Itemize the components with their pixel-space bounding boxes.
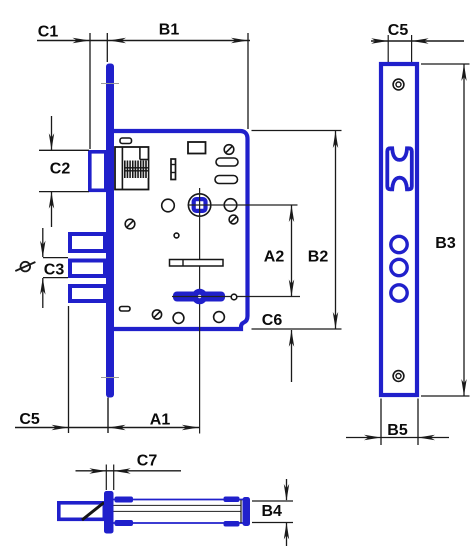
coil spring hatch xyxy=(124,161,148,179)
B4 extension top xyxy=(252,500,293,502)
bottom tab xyxy=(120,307,131,312)
extension line at body right x=248 xyxy=(247,33,249,129)
C2 arrow up xyxy=(51,192,53,227)
faceplate plate xyxy=(381,64,417,395)
circle mid-left xyxy=(162,199,175,212)
deadbolt bar 3 xyxy=(70,286,105,301)
slot 2 xyxy=(215,176,238,184)
end cap xyxy=(243,497,251,526)
B3 bottom extension xyxy=(421,395,470,397)
spindle square hub xyxy=(194,199,206,211)
screw centerline top xyxy=(101,83,119,85)
ring hole 3 xyxy=(391,285,407,301)
ring hole 2 xyxy=(391,259,407,275)
extension line deadbolt face xyxy=(68,306,70,433)
slot 1 xyxy=(216,158,238,166)
body interior line 2 xyxy=(114,510,242,512)
svg-text:B1: B1 xyxy=(159,22,180,39)
body interior line 1 xyxy=(114,504,242,506)
tab bottom-right xyxy=(224,521,240,527)
C5 arrows xyxy=(371,38,388,43)
B2 top extension line xyxy=(252,130,342,132)
lever arm xyxy=(173,292,225,302)
C2 arrow down xyxy=(51,116,53,150)
extension line at faceplate x=107 xyxy=(106,33,108,62)
lever centerline / A2 bottom extension xyxy=(172,296,300,298)
C5 dimension line top xyxy=(371,40,464,42)
deadbolt bar 1 xyxy=(70,234,105,251)
arrow B1 right xyxy=(231,38,248,43)
arrow at deadbolt face xyxy=(52,425,69,430)
body side top edge xyxy=(114,499,244,501)
bottom screw hole xyxy=(393,371,404,382)
latch cutout xyxy=(387,148,412,189)
tab top-left xyxy=(115,497,134,503)
lock body outline xyxy=(111,131,248,329)
arrow C1 right xyxy=(73,38,90,43)
C5 extension lines / latch channel edges xyxy=(387,35,389,148)
lever pivot ring right xyxy=(231,294,237,300)
screw S2 xyxy=(229,215,238,224)
svg-text:A2: A2 xyxy=(264,249,285,266)
body side bottom edge xyxy=(114,522,244,524)
C2 extension line top xyxy=(39,149,89,151)
spindle centerline vertical xyxy=(199,188,201,434)
svg-text:C1: C1 xyxy=(38,24,59,41)
spring housing step xyxy=(139,147,141,160)
arrow at faceplate (left-pointing) xyxy=(109,425,126,430)
spring housing tab xyxy=(120,138,132,144)
horizontal slot plate xyxy=(170,260,224,267)
C3 extension line top xyxy=(43,257,68,259)
svg-text:C2: C2 xyxy=(50,161,71,178)
screw S3 left xyxy=(125,219,135,229)
deadbolt bar 2 xyxy=(70,261,105,277)
bottom dimension row line xyxy=(15,427,200,429)
B4 arrow up from below xyxy=(286,523,288,546)
C3 arrow up xyxy=(42,278,44,308)
ring hole 1 xyxy=(391,236,407,252)
svg-text:C6: C6 xyxy=(262,312,283,329)
spring housing box xyxy=(115,147,149,190)
svg-text:C5: C5 xyxy=(19,411,40,428)
arrow A1 right xyxy=(182,425,199,430)
svg-text:A1: A1 xyxy=(150,412,171,429)
wire: top dimension line C1/B1 xyxy=(37,40,250,42)
end cap thin line xyxy=(240,500,242,523)
C2 extension line bottom xyxy=(39,191,89,193)
svg-text:B5: B5 xyxy=(387,422,408,439)
C3 arrow down xyxy=(42,228,44,257)
latch bevel diagonal xyxy=(82,503,104,521)
svg-text:B3: B3 xyxy=(435,235,456,252)
latch bolt front xyxy=(90,152,106,191)
circle bottom-1 xyxy=(173,313,184,324)
B3 top extension xyxy=(421,63,470,65)
latch bolt side view xyxy=(59,503,105,520)
spindle follower circle xyxy=(188,194,210,216)
B5 extension lines xyxy=(380,399,382,446)
B5 dimension line xyxy=(346,437,449,439)
spindle centerline horizontal / A2 top extension xyxy=(188,204,298,206)
C3 extension line bottom xyxy=(43,277,68,279)
top screw hole xyxy=(393,79,404,90)
C6 arrow up from below xyxy=(291,330,293,382)
screw S1 top-right xyxy=(224,145,234,155)
spring housing inner wall xyxy=(121,147,123,190)
B4 extension bottom xyxy=(252,522,293,524)
extension line at latch face x=90 xyxy=(89,33,91,149)
circle bottom-2 xyxy=(214,312,225,323)
phi symbol xyxy=(21,262,31,272)
C7 arrows xyxy=(89,468,106,473)
svg-text:B2: B2 xyxy=(308,249,329,266)
screw S4 xyxy=(152,310,161,319)
A2 dimension line xyxy=(291,205,293,297)
svg-text:C7: C7 xyxy=(137,453,158,470)
B2 dimension line xyxy=(335,131,337,329)
small dot xyxy=(174,233,179,238)
B3 dimension line xyxy=(463,64,465,396)
screw centerline bottom xyxy=(101,377,119,379)
B2 bottom extension line xyxy=(252,328,342,330)
B4 arrow down from above xyxy=(286,479,288,500)
svg-text:C5: C5 xyxy=(388,22,409,39)
tab top-right xyxy=(224,497,240,503)
C7 dimension line xyxy=(76,470,182,472)
faceplate front bar xyxy=(106,64,114,398)
circle mid-right xyxy=(224,199,237,212)
svg-text:C3: C3 xyxy=(44,262,65,279)
faceplate centerline to bottom view xyxy=(107,398,109,434)
svg-text:B4: B4 xyxy=(261,503,282,520)
tab bottom-left xyxy=(115,520,134,526)
pin stack xyxy=(171,159,176,180)
top middle rectangle xyxy=(188,142,206,154)
faceplate side bar xyxy=(104,491,114,534)
C7 extension lines xyxy=(105,465,107,491)
arrow B1 left xyxy=(109,38,126,43)
